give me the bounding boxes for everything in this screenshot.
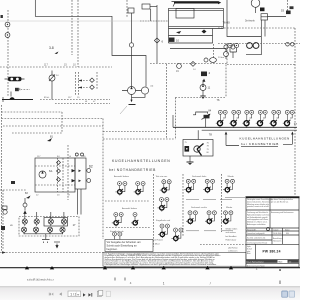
wire: dashed line x72 (71, 0, 73, 55)
arrow marker (55, 52, 59, 55)
dvalve 8 (60, 227, 65, 234)
svg-text:Ers.f. Hydraulikplan: Ers.f. Hydraulikplan (247, 261, 264, 263)
svg-text:Blatt: Blatt (247, 252, 251, 255)
gauge pair G7 G8 bold (247, 43, 253, 49)
svg-text:Auswahl heben: Auswahl heben (122, 207, 138, 210)
svg-text:gestattet, soweit nicht schrif: gestattet, soweit nicht schriftl. (247, 205, 270, 208)
wire: dashed line x78 (77, 0, 79, 67)
svg-text:Auswahl heben: Auswahl heben (114, 175, 130, 178)
check valve D3 (191, 62, 196, 67)
comp left edge (1, 226, 5, 230)
pump comp 11 (200, 85, 206, 91)
inner rect (176, 8, 194, 18)
check valves pair right (90, 78, 95, 82)
gauge circle G4 (224, 52, 229, 57)
wire: dashed pilot line x8 (7, 10, 9, 96)
svg-text:Sach-Nr. und Zeichn.-Nr.: Sach-Nr. und Zeichn.-Nr. (247, 237, 266, 240)
stems up (25, 212, 64, 219)
svg-text:Kugelhahn auf: Kugelhahn auf (156, 220, 171, 222)
dark check valves into block (72, 169, 76, 172)
svg-text:64-: 64- (49, 169, 53, 173)
wire: y16.5 link (268, 16, 287, 18)
tank arrow up (54, 241, 60, 243)
svg-text:77: 77 (294, 122, 298, 126)
brake block (260, 8, 265, 12)
dvalve 7 (47, 227, 52, 234)
housing box U1 (169, 8, 224, 43)
frame: dashed main column x103 (102, 119, 104, 240)
wire: long vertical x157 (156, 5, 158, 63)
svg-text:Zeichnungsnummer Ersatz: Zeichnungsnummer Ersatz (247, 241, 267, 244)
toolbar icon prev (disabled) (59, 292, 62, 295)
valve V4 (201, 72, 207, 77)
wires drehwerk (256, 7, 266, 36)
svg-text:76-80: 76-80 (223, 20, 231, 24)
wire: vertical feed x131.5 (131, 13, 133, 87)
wire: bottom run of block (170, 49, 226, 52)
svg-text:Name: Name (285, 229, 290, 231)
wire: dashed y28 (218, 27, 296, 29)
manifold double lines (169, 26, 224, 28)
survey triangle 5 (205, 266, 209, 269)
wire: dashed bus y64.5 right (227, 64, 296, 66)
ball valve K2 (229, 110, 240, 128)
svg-text:bei NOTHANDBETRIEB: bei NOTHANDBETRIEB (109, 168, 156, 172)
svg-text:Winde: Winde (228, 176, 235, 178)
node marker top-left edge (1, 15, 3, 18)
instrument box 75 (183, 140, 213, 157)
faint pencil line (0, 20, 168, 22)
svg-text:wir uns alle Rechte vor.: wir uns alle Rechte vor. (271, 200, 289, 203)
dashed frame risers (166, 64, 168, 139)
tank blob (10, 97, 15, 99)
wire: main bus double line (173, 126, 297, 128)
pencil mark (120, 106, 127, 114)
valve comp 84 (196, 112, 208, 115)
wire: dashed stub x213.5 (213, 44, 215, 58)
kugelhahn group 1 (116, 182, 127, 196)
drehwerk box (227, 0, 261, 37)
kugelhahn group 10 (222, 211, 233, 225)
small comp left (11, 181, 15, 184)
frame: dashed left box lines (1, 105, 3, 252)
check valve D1 (202, 30, 207, 34)
svg-text:Blatt: Blatt (279, 260, 283, 263)
ports right of block 62 (87, 169, 91, 173)
svg-text:Schritt auch Einstellung an: Schritt auch Einstellung an (107, 244, 138, 248)
wire: solid y99.5 (2, 99, 33, 101)
svg-text:a.t/a.dR.(k).besch.Anl.u.x: a.t/a.dR.(k).besch.Anl.u.x (27, 279, 55, 282)
comp tiny right (290, 6, 294, 9)
svg-text:Kugelhahn ab: Kugelhahn ab (110, 231, 124, 233)
tank triangle (23, 211, 27, 214)
valve V8 top middle-left (142, 4, 150, 9)
svg-text:Toleranzen: Toleranzen (273, 239, 281, 242)
pump small P3 (204, 58, 208, 62)
svg-text:117: 117 (44, 64, 48, 67)
wire: riser x261.3 and corner (246, 20, 261, 55)
page number box (68, 291, 81, 297)
survey triangle 3 (103, 266, 107, 269)
kugelhahn group 7 tele row2 (158, 198, 169, 212)
valve V5 (261, 14, 268, 20)
wire: dash-dot y21 (140, 20, 168, 22)
ball valve with lever (194, 146, 200, 152)
svg-text:KUGELHAHNSTELLUNGEN: KUGELHAHNSTELLUNGEN (112, 159, 171, 163)
cylinder bar (cropped symbol at top) (174, 1, 218, 3)
svg-text:bei KRANBETRIEB: bei KRANBETRIEB (241, 142, 279, 146)
dvalve 4 (61, 219, 66, 226)
svg-text:20.06.2000: 20.06.2000 (273, 233, 282, 235)
toolbar icon pages 1 (97, 291, 101, 296)
survey triangle 3b (131, 266, 135, 269)
svg-text:/: / (210, 282, 211, 286)
check valves column inside (57, 161, 61, 182)
kugelhahn group 8 (186, 211, 197, 225)
toolbar right blue icon 1 (282, 291, 288, 297)
svg-text:Drehwerk links: Drehwerk links (192, 175, 207, 178)
svg-text:Winde: Winde (226, 207, 233, 209)
kugelhahn group 2 (134, 182, 145, 196)
toolbar icon pages 2 (disabled) (106, 291, 110, 296)
svg-text:Tele ein aus: Tele ein aus (156, 176, 169, 178)
wire: dashed y131.5 (103, 131, 167, 133)
svg-text:78: 78 (209, 132, 213, 136)
gauge circle G3 (129, 43, 133, 47)
kugelhahn group 3 (160, 180, 171, 194)
svg-text:Hebel davor: Hebel davor (226, 240, 237, 242)
survey triangle 6 (229, 266, 233, 269)
valve bank enclosure (19, 217, 79, 237)
wire: dashed y103.5 (55, 103, 110, 105)
pilot band dashed pair (76, 72, 79, 95)
wire: dashed x287.5 (287, 0, 289, 11)
wire: dashed bus y67 left (0, 66, 112, 68)
block 62 (75, 158, 86, 189)
survey triangle 2 (50, 266, 54, 269)
drop line to instrument box (197, 130, 199, 139)
kugelhahn group 12 single (131, 213, 138, 226)
kugelhahn group 6 (223, 179, 234, 193)
wires converge (24, 232, 63, 239)
gauge list rows (207, 142, 210, 154)
wires below block 62 (78, 189, 82, 215)
svg-text:(0): (0) (151, 86, 154, 88)
svg-text:und senken: und senken (226, 232, 236, 234)
kugelhahn group 4 (184, 179, 195, 193)
valve block B1 (169, 29, 213, 44)
wire: dashed x227 link (226, 44, 228, 65)
svg-text:89 t/c: 89 t/c (44, 96, 50, 99)
dense instruction text block (103, 252, 246, 266)
dvalve 1 (22, 219, 27, 226)
grid dashed dividers (152, 174, 154, 247)
survey triangle 1 (25, 266, 29, 269)
svg-text:Druckspeicher vor Demontage en: Druckspeicher vor Demontage entlasten. R… (105, 263, 218, 266)
svg-text:Änderungen vorbehalten.: Änderungen vorbehalten. (247, 223, 266, 226)
dvalve 3 (48, 219, 53, 226)
wire: top-left corner run (35, 0, 146, 87)
gauge + box far left (3, 210, 7, 214)
svg-text:Benennung und Sachnummer: Benennung und Sachnummer (271, 211, 294, 214)
gauge mini pair right (286, 42, 290, 46)
svg-text:1: 1 (163, 282, 165, 286)
toolbar icon next (83, 293, 86, 296)
wire: dashed x295 (294, 28, 296, 196)
check valve arrow A1 (176, 31, 181, 34)
ball valve K1 (216, 110, 227, 128)
wire: dashed y252.5 left (0, 252, 103, 254)
gauge circle (23, 203, 27, 207)
svg-text:Drehwerk: Drehwerk (245, 20, 256, 23)
svg-text:Datum: Datum (274, 228, 280, 231)
wire: dashed y43.5 right (218, 43, 300, 45)
gauge circle G1 (5, 22, 10, 27)
svg-text:PW 380.24: PW 380.24 (263, 250, 281, 254)
pump-motor unit left (8, 77, 22, 81)
dvalve 5 (21, 227, 26, 234)
gauge circle G2 (5, 33, 10, 38)
survey triangle 4 (162, 266, 166, 269)
svg-text:KUGELHAHNSTELLUNGEN: KUGELHAHNSTELLUNGEN (240, 136, 290, 140)
svg-text:23 bar: 23 bar (218, 56, 224, 59)
main pump P1 twin circles (128, 87, 136, 95)
variable pump circle (49, 75, 55, 81)
gauge pair small (228, 43, 232, 47)
toolbar icon last page (88, 293, 91, 296)
wire: dashed x127 (126, 0, 128, 17)
kugelhahn group 11 (112, 213, 123, 227)
arrow comp 81 (47, 138, 52, 141)
dark bottom row (246, 260, 278, 263)
valve block VB1 (35, 158, 75, 192)
valve V6 (286, 11, 291, 15)
dvalve 2 (34, 219, 39, 226)
relief valve RV1 (15, 88, 19, 91)
gauge circle 19 (177, 64, 182, 69)
kran header bracket arrows (225, 133, 227, 146)
ball valve K4 (256, 110, 267, 128)
svg-text:Vor Ausgabe der Arbeitsst. am: Vor Ausgabe der Arbeitsst. am (107, 240, 141, 244)
tank below box (189, 156, 191, 162)
svg-text:Gezeichnet und geprüft: Gezeichnet und geprüft (247, 232, 265, 235)
arrows on band (78, 80, 82, 82)
svg-text:3-8: 3-8 (49, 46, 54, 50)
note box (105, 240, 153, 252)
motor M1 (251, 0, 260, 7)
kugelhahn group 14 (158, 224, 169, 238)
ball valve K6 (283, 110, 294, 128)
dvalve 6 (33, 227, 38, 234)
wire: dashed y99.5 right (40, 99, 110, 101)
valve bank rect (44, 218, 68, 227)
ball valve K5 (269, 110, 280, 128)
toolbar icon first page (disabled) (49, 293, 51, 296)
title block (225, 196, 300, 267)
pump symbol inside (39, 171, 46, 178)
svg-text:2: 2 (256, 267, 258, 271)
solenoid in box (185, 146, 190, 152)
svg-text:62: 62 (89, 164, 93, 168)
wire: dashed y139 (103, 138, 175, 140)
junction comp (128, 8, 134, 13)
svg-text:1 / 2: 1 / 2 (70, 292, 76, 296)
ball valve K3 (242, 110, 253, 128)
kugelhahn group 9 (205, 211, 216, 225)
gauge pair G5 G6 (224, 45, 228, 49)
svg-text:Winde heben: Winde heben (226, 228, 238, 230)
right notes column (226, 228, 239, 252)
kugelhahn group 15 bottom center (172, 228, 183, 242)
svg-text:Drehwerk rechts: Drehwerk rechts (191, 206, 208, 209)
kugelhahn group 5 (203, 179, 214, 193)
svg-text:alle Hähne: alle Hähne (228, 247, 238, 249)
solenoid S1 (169, 38, 175, 42)
svg-text:beginnen.: beginnen. (107, 247, 118, 251)
svg-text:Hergestellt f.: Hergestellt f. (247, 228, 257, 231)
svg-text:bei Handbet.: bei Handbet. (226, 235, 238, 238)
kugelhahn group 13 (111, 232, 122, 246)
zone labels (115, 278, 125, 281)
wire: dashed bus y63.5 (150, 63, 227, 65)
svg-text:830: 830 (286, 233, 289, 235)
check valve D2 with label 6 (154, 38, 159, 43)
bottom border line (0, 267, 300, 269)
toolbar right blue icon 2 (289, 291, 295, 297)
